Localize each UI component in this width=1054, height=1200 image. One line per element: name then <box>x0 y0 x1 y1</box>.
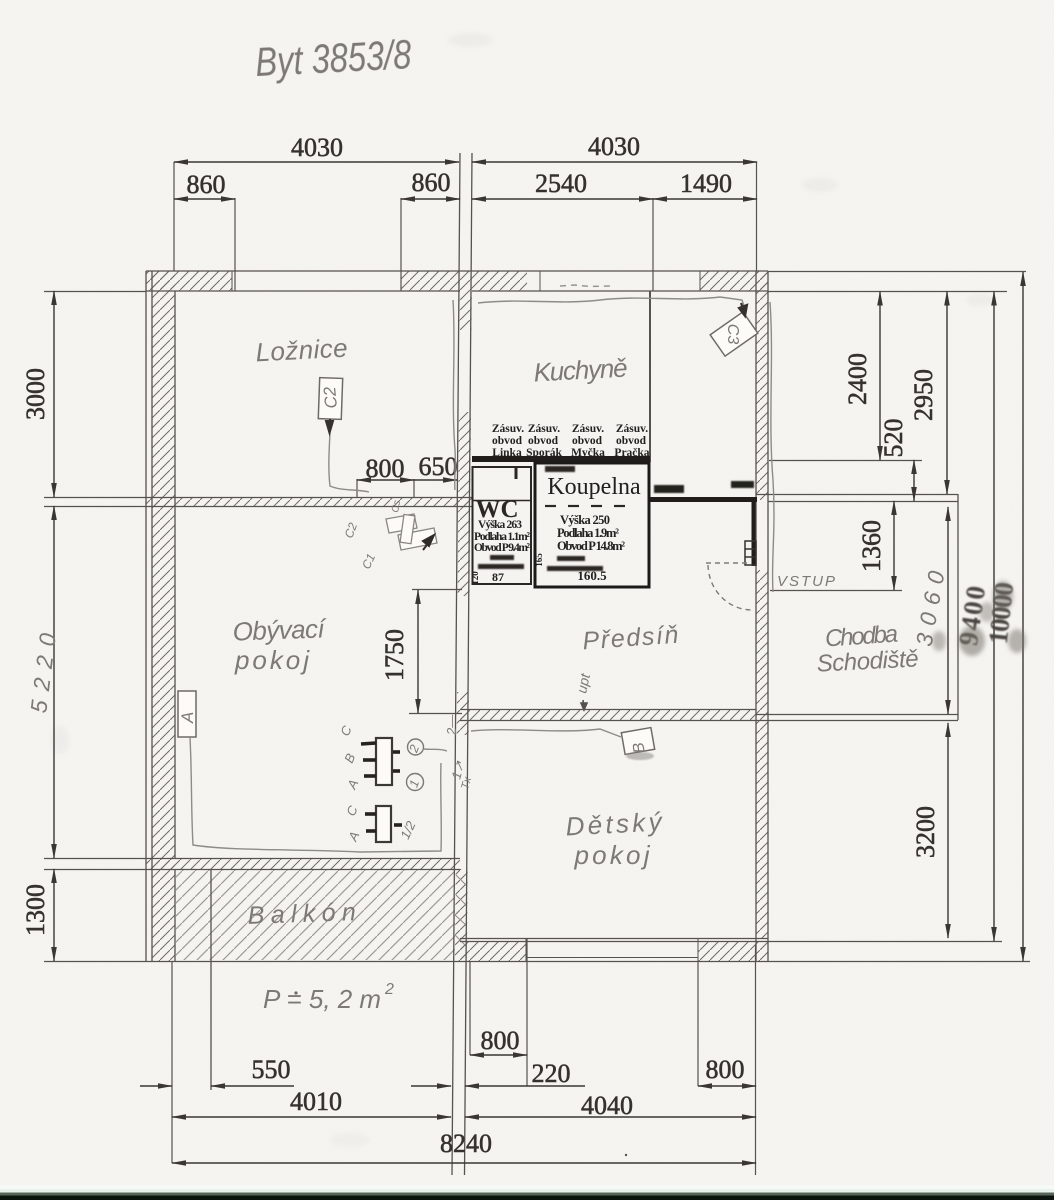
svg-text:160.5: 160.5 <box>577 568 607 583</box>
svg-text:Cs: Cs <box>390 500 403 514</box>
svg-text:Obývací: Obývací <box>232 613 328 646</box>
svg-text:2540: 2540 <box>535 169 587 198</box>
svg-text:Linka: Linka <box>492 447 522 459</box>
svg-text:Koupelna: Koupelna <box>547 474 641 500</box>
svg-text:800: 800 <box>481 1026 520 1055</box>
svg-text:Zásuv.: Zásuv. <box>616 423 648 435</box>
svg-text:650: 650 <box>419 452 458 481</box>
svg-text:2400: 2400 <box>843 353 872 405</box>
svg-text:550: 550 <box>252 1055 291 1084</box>
svg-text:4030: 4030 <box>291 133 343 162</box>
svg-text:Byt 3853/8: Byt 3853/8 <box>254 31 412 85</box>
svg-text:Obvod P 9.4m²: Obvod P 9.4m² <box>474 542 531 554</box>
svg-text:220: 220 <box>532 1059 571 1088</box>
svg-text:8240: 8240 <box>440 1129 492 1158</box>
svg-text:860: 860 <box>412 168 451 197</box>
svg-text:Zásuv.: Zásuv. <box>492 423 524 435</box>
svg-text:A: A <box>178 712 197 724</box>
svg-text:3000: 3000 <box>21 368 50 420</box>
svg-text:Pračka: Pračka <box>614 447 649 459</box>
svg-text:Obvod P 14.8m²: Obvod P 14.8m² <box>557 539 625 553</box>
svg-text:C2: C2 <box>320 385 341 409</box>
svg-text:1360: 1360 <box>857 520 886 572</box>
svg-text:Výška 250: Výška 250 <box>560 513 610 527</box>
svg-text:860: 860 <box>187 170 226 199</box>
svg-text:2950: 2950 <box>909 369 938 421</box>
svg-text:520: 520 <box>879 419 908 458</box>
svg-text:Zásuv.: Zásuv. <box>572 423 604 435</box>
svg-text:4010: 4010 <box>290 1087 342 1116</box>
svg-text:C3: C3 <box>724 324 741 345</box>
svg-text:obvod: obvod <box>492 435 523 447</box>
svg-text:Kuchyně: Kuchyně <box>533 353 628 388</box>
svg-text:obvod: obvod <box>528 435 559 447</box>
svg-text:1300: 1300 <box>21 884 50 936</box>
svg-text:800: 800 <box>706 1055 745 1084</box>
svg-text:obvod: obvod <box>616 435 647 447</box>
svg-text:Zásuv.: Zásuv. <box>528 423 560 435</box>
svg-text:120: 120 <box>470 571 480 585</box>
svg-text:Výška 263: Výška 263 <box>478 519 522 531</box>
svg-text:Schodiště: Schodiště <box>816 645 919 677</box>
svg-text:P = 5, 2 m: P = 5, 2 m <box>263 984 381 1014</box>
svg-text:1490: 1490 <box>680 169 732 198</box>
svg-text:87: 87 <box>492 570 504 584</box>
svg-text:800: 800 <box>366 454 405 483</box>
svg-text:VSTUP: VSTUP <box>777 573 835 590</box>
svg-text:2—: 2— <box>444 714 459 736</box>
svg-text:Ložnice: Ložnice <box>255 333 348 368</box>
svg-text:obvod: obvod <box>572 435 603 447</box>
svg-text:pokoj: pokoj <box>234 645 310 675</box>
svg-text:165: 165 <box>534 553 544 567</box>
svg-text:3200: 3200 <box>911 806 940 858</box>
svg-text:1750: 1750 <box>380 629 409 681</box>
svg-text:Podlaha 1.9m²: Podlaha 1.9m² <box>557 526 619 540</box>
svg-text:2: 2 <box>384 981 394 998</box>
svg-text:pokoj: pokoj <box>574 840 651 870</box>
svg-text:Myčka: Myčka <box>571 447 605 459</box>
svg-text:4040: 4040 <box>581 1091 633 1120</box>
svg-text:Sporák: Sporák <box>526 447 562 459</box>
svg-text:4030: 4030 <box>588 132 640 161</box>
